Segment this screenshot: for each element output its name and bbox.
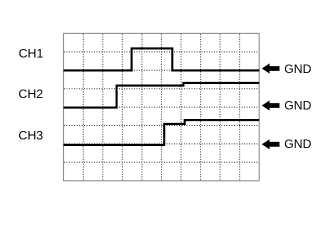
svg-text:GND: GND — [284, 98, 311, 112]
grid border — [64, 33, 260, 180]
arrow GND CH2 — [262, 100, 280, 110]
arrow GND CH3 — [262, 139, 280, 149]
svg-text:GND: GND — [284, 137, 311, 151]
waveform CH3 — [64, 120, 260, 145]
svg-text:CH2: CH2 — [18, 87, 43, 101]
arrow GND CH1 — [262, 63, 280, 73]
grid horizontal dotted lines — [64, 52, 259, 162]
svg-text:GND: GND — [284, 62, 311, 76]
waveform CH2 — [64, 83, 260, 108]
waveform CH1 — [64, 48, 260, 70]
svg-text:CH3: CH3 — [18, 129, 43, 143]
svg-text:CH1: CH1 — [19, 47, 44, 61]
grid vertical dotted lines — [83, 34, 239, 180]
